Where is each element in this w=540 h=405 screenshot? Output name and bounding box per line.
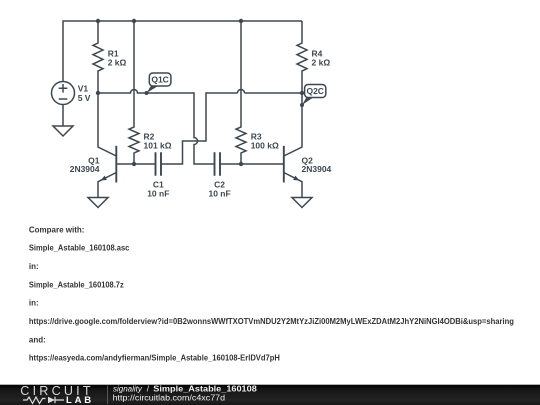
svg-text:V1: V1 (78, 84, 89, 94)
svg-text:Simple_Astable_160108: Simple_Astable_160108 (153, 384, 257, 393)
svg-text:5 V: 5 V (78, 93, 91, 103)
svg-text:LAB: LAB (66, 395, 94, 405)
svg-text:2 kΩ: 2 kΩ (312, 58, 331, 68)
svg-text:10 nF: 10 nF (147, 189, 169, 199)
svg-text:signality: signality (113, 384, 143, 393)
svg-text:https://drive.google.com/folde: https://drive.google.com/folderview?id=0… (29, 317, 514, 326)
svg-text:https://easyeda.com/andyfierma: https://easyeda.com/andyfierman/Simple_A… (29, 354, 280, 363)
svg-text:in:: in: (29, 299, 39, 308)
svg-text:in:: in: (29, 262, 39, 271)
svg-text:2N3904: 2N3904 (70, 164, 100, 174)
svg-text:Compare with:: Compare with: (29, 225, 85, 234)
svg-text:Simple_Astable_160108.asc: Simple_Astable_160108.asc (29, 244, 130, 253)
svg-text:Simple_Astable_160108.7z: Simple_Astable_160108.7z (29, 280, 124, 289)
svg-text:100 kΩ: 100 kΩ (251, 140, 279, 150)
svg-text:101 kΩ: 101 kΩ (144, 140, 172, 150)
svg-text:Q1C: Q1C (151, 75, 168, 85)
svg-text:and:: and: (29, 335, 46, 344)
svg-text:2N3904: 2N3904 (302, 164, 332, 174)
svg-text:http://circuitlab.com/c4xc77d: http://circuitlab.com/c4xc77d (113, 394, 226, 403)
svg-text:2 kΩ: 2 kΩ (108, 58, 127, 68)
svg-text:10 nF: 10 nF (208, 189, 230, 199)
svg-text:Q2C: Q2C (306, 86, 323, 96)
